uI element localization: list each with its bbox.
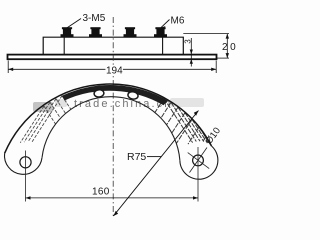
dimension 160 bbox=[26, 197, 199, 199]
svg-text:R75: R75 bbox=[127, 151, 146, 163]
right hole extension line bbox=[197, 147, 199, 202]
svg-text:20: 20 bbox=[222, 42, 238, 53]
curved shoe: dark top face strip bbox=[62, 85, 168, 105]
left end lobe bbox=[4, 153, 42, 174]
band hole ring 2 bbox=[127, 91, 138, 100]
watermark text bbox=[33, 98, 204, 112]
right hole centerline cross bbox=[188, 148, 210, 173]
block segment line 1 bbox=[63, 37, 65, 54]
stud bolt 1 bbox=[61, 27, 74, 37]
stud bolt 4 (M6) bbox=[154, 27, 167, 37]
label 3-M5 with leader bbox=[65, 13, 106, 32]
svg-text:3-M5: 3-M5 bbox=[83, 13, 106, 24]
inner arc of shoe bbox=[42, 97, 180, 161]
dimension 20 (right) bbox=[183, 34, 229, 59]
base plate (side view) bbox=[8, 55, 217, 60]
mounting block (side view) bbox=[43, 37, 183, 55]
left hole bbox=[20, 157, 31, 168]
svg-text:194: 194 bbox=[106, 66, 123, 77]
vertical centerline (dashed) bbox=[112, 17, 114, 216]
outer arc of shoe bbox=[5, 84, 212, 153]
R75 text with tick bbox=[147, 156, 162, 158]
right end lobe bbox=[180, 146, 218, 179]
radius leader R75 bbox=[113, 111, 198, 217]
right hole bbox=[193, 155, 204, 166]
dimension 194 (bottom of side view) bbox=[8, 61, 216, 74]
label M6 with leader bbox=[161, 16, 185, 30]
svg-text:M6: M6 bbox=[171, 16, 185, 27]
block segment line 2 bbox=[162, 37, 164, 54]
svg-text:160: 160 bbox=[92, 187, 110, 198]
stud bolt 2 bbox=[89, 27, 102, 37]
svg-text:3: 3 bbox=[184, 39, 193, 44]
dimension 3 (plate thickness) bbox=[190, 38, 192, 67]
stud bolt 3 bbox=[124, 27, 137, 37]
band hole ring 1 bbox=[94, 89, 104, 97]
left hole extension line bbox=[25, 151, 27, 202]
